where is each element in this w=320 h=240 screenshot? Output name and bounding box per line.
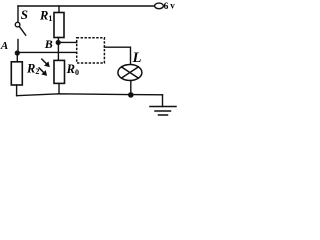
switch S xyxy=(15,22,25,51)
svg-text:L: L xyxy=(132,50,142,66)
svg-text:S: S xyxy=(21,7,28,22)
svg-text:v: v xyxy=(170,1,175,11)
lamp L xyxy=(118,65,142,81)
wire: R1 top stub xyxy=(58,6,60,13)
battery terminal 6V xyxy=(155,3,164,9)
wire: lamp bottom to bottom bus xyxy=(130,81,132,95)
node B xyxy=(56,40,61,45)
resistor R1 xyxy=(54,13,64,38)
bottom bus wire xyxy=(17,94,163,96)
wire: control box to lamp L xyxy=(104,47,130,64)
svg-text:6: 6 xyxy=(164,2,169,12)
svg-text:A: A xyxy=(0,40,8,52)
control box (dashed) xyxy=(77,38,105,63)
wire: top-left drop to switch xyxy=(17,6,19,22)
wire: node B down to R0 xyxy=(57,42,59,60)
junction: lamp on bottom bus xyxy=(128,92,134,98)
svg-text:B: B xyxy=(44,37,53,51)
wire: R0 bottom to bottom bus xyxy=(58,83,60,93)
light arrows xyxy=(39,59,49,76)
wire: bottom bus to ground xyxy=(162,95,164,107)
resistor R2 xyxy=(11,62,22,85)
wire: node A down to R2 xyxy=(16,55,18,62)
resistor R0 xyxy=(54,60,65,83)
wire: node B to control box (upper feed) xyxy=(58,41,76,43)
wire: node A to control box (lower feed) xyxy=(17,51,76,53)
wire: R2 bottom to bottom bus xyxy=(16,85,18,96)
node A xyxy=(15,50,20,55)
wire: R1 bottom to node B xyxy=(57,38,59,43)
wire: top bus from switch corner to 6V terminal xyxy=(18,5,156,7)
ground xyxy=(150,107,176,116)
